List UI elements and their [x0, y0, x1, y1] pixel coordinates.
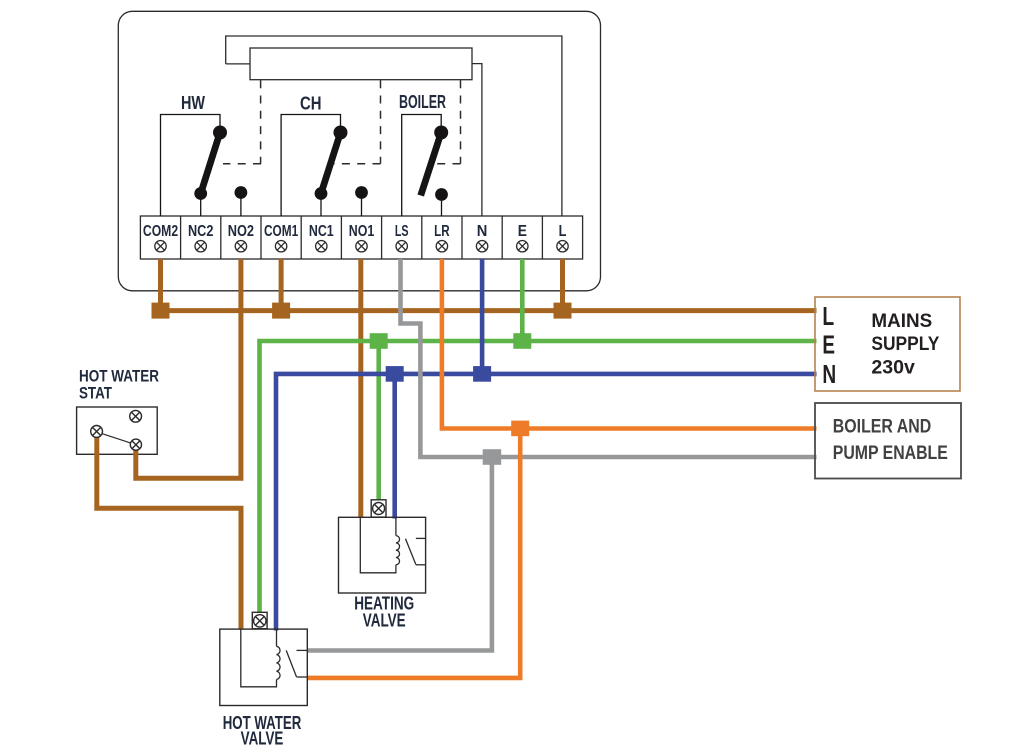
- svg-text:SUPPLY: SUPPLY: [871, 333, 939, 355]
- svg-text:VALVE: VALVE: [241, 728, 284, 749]
- svg-text:E: E: [822, 329, 835, 359]
- svg-text:L: L: [559, 223, 567, 240]
- svg-text:BOILER: BOILER: [399, 91, 446, 112]
- svg-text:NO2: NO2: [228, 223, 254, 240]
- svg-text:230v: 230v: [871, 356, 915, 378]
- svg-text:L: L: [822, 301, 834, 331]
- svg-text:CH: CH: [300, 93, 322, 114]
- svg-text:N: N: [477, 223, 488, 240]
- svg-text:LR: LR: [434, 223, 450, 240]
- svg-text:BOILER AND: BOILER AND: [833, 415, 931, 437]
- svg-text:NO1: NO1: [349, 223, 375, 240]
- svg-text:COM1: COM1: [264, 223, 298, 240]
- svg-text:N: N: [822, 359, 836, 389]
- svg-text:STAT: STAT: [79, 385, 112, 403]
- svg-text:HW: HW: [181, 92, 205, 113]
- svg-text:NC1: NC1: [309, 223, 334, 240]
- svg-text:E: E: [518, 223, 527, 240]
- svg-text:COM2: COM2: [143, 223, 178, 240]
- svg-text:PUMP ENABLE: PUMP ENABLE: [833, 442, 948, 464]
- svg-text:VALVE: VALVE: [363, 610, 406, 631]
- svg-text:NC2: NC2: [188, 223, 214, 240]
- svg-text:LS: LS: [395, 223, 409, 240]
- svg-text:HOT WATER: HOT WATER: [79, 368, 159, 386]
- svg-text:MAINS: MAINS: [871, 310, 932, 332]
